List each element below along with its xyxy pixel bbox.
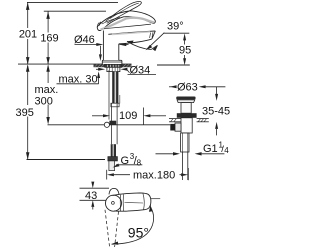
svg-text:95: 95 xyxy=(179,45,191,57)
svg-text:169: 169 xyxy=(40,33,58,45)
svg-text:395: 395 xyxy=(16,107,34,119)
svg-text:43: 43 xyxy=(85,190,97,202)
svg-text:109: 109 xyxy=(119,110,137,122)
svg-text:4: 4 xyxy=(224,146,229,155)
svg-text:max.: max. xyxy=(35,84,59,96)
svg-text:G1: G1 xyxy=(203,143,218,155)
svg-text:Ø63: Ø63 xyxy=(177,81,198,93)
svg-text:35-45: 35-45 xyxy=(202,106,230,118)
svg-text:Ø34: Ø34 xyxy=(130,64,151,76)
svg-text:300: 300 xyxy=(35,96,53,108)
svg-text:95°: 95° xyxy=(128,224,149,240)
svg-text:max.180: max.180 xyxy=(133,169,175,181)
svg-text:201: 201 xyxy=(19,29,37,41)
svg-text:39°: 39° xyxy=(167,21,184,33)
svg-text:8: 8 xyxy=(137,159,142,168)
